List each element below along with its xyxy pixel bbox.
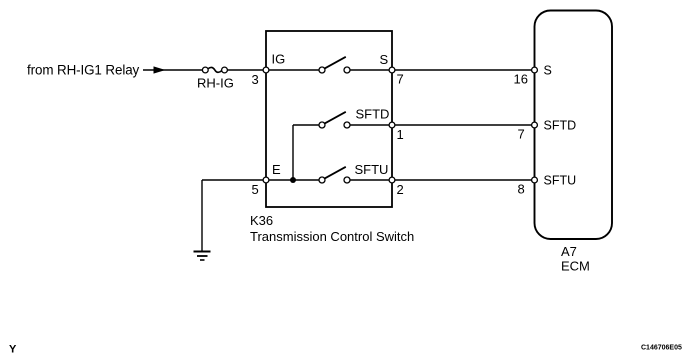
wire switch to pin 1 [350,124,389,126]
wire IG to switch [269,69,319,71]
switch IG-S [319,57,350,73]
wire feed with arrow [143,66,203,73]
wire fuse to pin 3 [228,69,264,71]
svg-text:5: 5 [252,182,259,197]
wire switch to pin 7 [350,69,389,71]
wire SFTD branch vertical [292,125,294,180]
svg-text:1: 1 [397,127,404,142]
terminal pin 1 [389,122,395,128]
svg-text:C146706E05: C146706E05 [641,345,682,352]
terminal pin 7 [389,67,395,73]
terminal pin 3 [263,67,269,73]
svg-text:SFTU: SFTU [544,174,577,188]
svg-text:Transmission Control Switch: Transmission Control Switch [250,229,414,244]
wire pin 7 to ECM pin 16 [395,69,532,71]
svg-text:K36: K36 [250,213,273,228]
svg-text:Y: Y [9,344,17,356]
svg-text:from RH-IG1 Relay: from RH-IG1 Relay [27,63,140,78]
wire pin 2 to ECM pin 8 [395,179,532,181]
wire switch to pin 2 [350,179,389,181]
svg-text:8: 8 [518,182,525,197]
svg-text:SFTU: SFTU [355,162,389,177]
wire SFTD branch horizontal [293,124,319,126]
svg-text:IG: IG [272,52,286,67]
terminal ECM pin 16 [532,67,538,73]
svg-text:SFTD: SFTD [544,119,577,133]
wire pin 1 to ECM pin 7 [395,124,532,126]
wire ground drop [201,180,203,251]
terminal pin 5 [263,177,269,183]
svg-text:7: 7 [518,127,525,142]
svg-text:16: 16 [514,72,528,87]
fuse RH-IG [202,67,227,73]
svg-text:3: 3 [252,72,259,87]
wire E to switch [269,179,319,181]
switch box K36 [266,31,392,207]
terminal ECM pin 7 [532,122,538,128]
svg-text:A7: A7 [561,244,577,259]
svg-text:ECM: ECM [561,259,590,274]
svg-text:E: E [272,162,281,177]
ground [194,252,211,261]
ECM box U A7 [535,11,613,240]
svg-text:RH-IG: RH-IG [197,76,234,91]
svg-text:2: 2 [397,182,404,197]
svg-text:S: S [380,52,389,67]
switch SFTU [319,167,350,183]
junction dot [290,177,296,183]
terminal ECM pin 8 [532,177,538,183]
svg-text:SFTD: SFTD [356,107,390,122]
wire ground to pin 5 [202,179,263,181]
svg-text:7: 7 [397,72,404,87]
switch SFTD [319,112,350,128]
terminal pin 2 [389,177,395,183]
svg-text:S: S [544,64,552,78]
